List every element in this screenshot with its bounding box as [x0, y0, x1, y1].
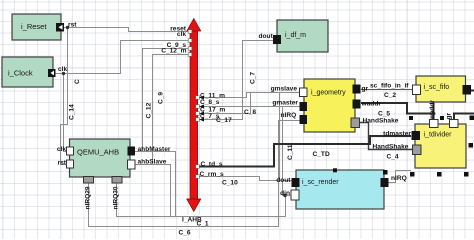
svg-text:dout: dout — [259, 33, 274, 40]
port i_sc_render dout — [292, 178, 300, 187]
wire HandShake: geometry to tdivider — [360, 123, 413, 150]
wire ahbSlave — [135, 165, 171, 217]
port QEMU_AHB ahbSlave — [128, 160, 136, 169]
handle i_tdivider right-mid — [469, 143, 474, 148]
svg-text:i_tdivider: i_tdivider — [424, 132, 453, 139]
svg-text:nIRQ29: nIRQ29 — [85, 186, 92, 209]
svg-text:gmaster: gmaster — [272, 100, 298, 107]
svg-text:C_9: C_9 — [158, 92, 165, 104]
wire gmslave down to render dout — [280, 93, 293, 181]
svg-text:C_1: C_1 — [197, 221, 209, 228]
module i_sc_fifo — [416, 76, 466, 102]
handle i_tdivider top-right — [470, 116, 474, 121]
port i_geometry gmslave — [300, 88, 308, 97]
bus port reset (white squares on arrow left edge) — [188, 30, 199, 179]
port QEMU_AHB clk in — [67, 147, 74, 155]
svg-text:i_Clock: i_Clock — [8, 69, 33, 78]
port QEMU_AHB nIRQ29 — [84, 177, 94, 184]
svg-text:C_TD: C_TD — [313, 151, 330, 158]
svg-text:tdmaster: tdmaster — [383, 131, 411, 138]
module i_sc_render — [296, 170, 384, 209]
bus port arrow markers — [200, 95, 205, 121]
wire gr loop from fifo right port off right edge — [470, 90, 474, 92]
svg-text:C_12_m: C_12_m — [161, 47, 186, 54]
wire sc_fifo_in_if: geometry gr to i_sc_fifo — [361, 89, 412, 91]
svg-text:waddr: waddr — [429, 100, 436, 121]
svg-text:sc_fifo_in_if: sc_fifo_in_if — [370, 83, 409, 90]
handle i_tdivider top-mid — [440, 116, 444, 120]
svg-text:clk: clk — [58, 66, 67, 73]
node din junction — [283, 194, 286, 197]
wire waddr stub up to fifo bottom — [433, 102, 435, 114]
wire gr loop re-entering to tdivider top port 2 — [454, 114, 474, 121]
module i_Reset — [12, 14, 61, 40]
svg-text:C_17: C_17 — [216, 117, 232, 124]
wire C_11: bus to gmslave — [197, 93, 300, 98]
wire C_9: bus C_9_s down to ahbMaster wire — [143, 49, 191, 152]
port QEMU_AHB nIRQ30 — [112, 177, 122, 184]
handle i_tdivider bottom-right — [464, 172, 469, 177]
svg-text:C_7: C_7 — [250, 72, 257, 84]
wire render nIRQ up — [388, 171, 411, 183]
port i_tdivider tdmaster — [412, 131, 421, 140]
svg-text:C_6: C_6 — [179, 230, 191, 237]
port i_Reset rst out — [56, 23, 64, 32]
port i_Clock clk out — [48, 69, 56, 77]
module QEMU_AHB — [70, 139, 131, 177]
port i_geometry gmaster — [300, 102, 308, 111]
svg-text:C_rm_s: C_rm_s — [200, 171, 225, 178]
wire ahbMaster — [135, 152, 176, 217]
port QEMU_AHB ahbMaster — [128, 147, 136, 156]
svg-text:waddr: waddr — [361, 101, 382, 108]
node rst junction — [66, 26, 69, 29]
wire clk down to QEMU_AHB clk — [64, 74, 67, 152]
port i_sc_render nIRQ — [381, 178, 389, 187]
wire C_7: i_df_m dout to bus C_7_s — [197, 41, 273, 120]
svg-text:rst: rst — [58, 160, 67, 167]
wire C_TD: bus C_td_s to tdivider tdmaster — [198, 136, 411, 167]
port QEMU_AHB rst in — [67, 160, 74, 168]
svg-text:i_sc_fifo: i_sc_fifo — [424, 84, 450, 91]
port i_tdivider HandShake — [413, 145, 422, 155]
svg-text:nIRQ: nIRQ — [391, 175, 407, 182]
module i_df_m — [277, 20, 328, 52]
svg-text:QEMU_AHB: QEMU_AHB — [77, 148, 119, 157]
handle i_sc_render top-right — [383, 170, 388, 175]
svg-text:ahbMaster: ahbMaster — [138, 146, 171, 153]
wire C_17: bus east then up — [197, 93, 251, 114]
node clk junction — [62, 72, 65, 75]
handle i_tdivider top-left — [409, 116, 413, 120]
svg-text:C_5: C_5 — [378, 111, 390, 118]
wire C_8: bus to gmaster — [197, 106, 300, 108]
handle i_tdivider bottom-left — [410, 172, 415, 177]
port i_geometry nIRQ — [300, 115, 308, 124]
port i_sc_render din — [291, 190, 299, 200]
port i_geometry waddr — [353, 100, 361, 109]
svg-text:dout: dout — [276, 177, 291, 184]
wire C_10: bus C_rm_s to render dout — [198, 177, 280, 181]
node waddr junction — [432, 112, 436, 116]
svg-text:i_Reset: i_Reset — [21, 22, 47, 31]
wire waddr: geometry waddr to tdivider top port — [361, 103, 434, 120]
port i_tdivider top2 — [450, 120, 459, 128]
bus arrow I_AHB — [187, 19, 201, 212]
svg-text:C_12: C_12 — [146, 102, 153, 118]
module i_geometry — [304, 79, 355, 132]
svg-text:gr: gr — [446, 112, 453, 119]
svg-text:HandShake: HandShake — [373, 144, 409, 151]
wire gmaster down to render din — [283, 107, 293, 196]
wire nIRQ30: QEMU_AHB down and right — [117, 183, 286, 217]
wire clk: i_Clock to bus clk port — [55, 41, 190, 74]
svg-text:gr: gr — [362, 86, 369, 93]
svg-text:C_10: C_10 — [222, 180, 238, 187]
svg-text:gmslave: gmslave — [271, 86, 298, 93]
svg-text:din: din — [280, 190, 290, 197]
svg-text:i_geometry: i_geometry — [311, 90, 346, 97]
svg-text:C_2: C_2 — [384, 92, 396, 99]
svg-text:C_td_s: C_td_s — [201, 161, 223, 168]
svg-text:C_8: C_8 — [244, 109, 256, 116]
svg-text:clk: clk — [57, 146, 66, 153]
wire nIRQ29: QEMU_AHB to i_geometry nIRQ — [89, 121, 300, 227]
svg-text:i_sc_render: i_sc_render — [302, 179, 339, 186]
svg-text:nIRQ30: nIRQ30 — [113, 186, 120, 209]
svg-text:i_df_m: i_df_m — [285, 32, 306, 39]
svg-text:rst: rst — [68, 22, 77, 29]
port i_geometry gr — [353, 85, 361, 94]
svg-text:ahbSlave: ahbSlave — [138, 159, 167, 166]
port i_sc_fifo in — [413, 85, 421, 95]
module i_Clock — [2, 57, 53, 87]
svg-text:C_14: C_14 — [69, 104, 76, 120]
svg-text:C: C — [74, 79, 81, 84]
port i_df_m dout — [273, 35, 281, 44]
handle i_tdivider bottom-mid — [437, 172, 442, 177]
svg-text:C_11: C_11 — [287, 144, 294, 160]
port i_tdivider top1 — [430, 120, 439, 128]
svg-text:C_8_s: C_8_s — [200, 99, 220, 106]
svg-text:HandShake: HandShake — [363, 118, 399, 125]
wire rst down to QEMU_AHB rst — [61, 28, 68, 165]
module i_tdivider — [415, 124, 466, 168]
port i_geometry HandShake — [351, 118, 360, 128]
wire rst: i_Reset to bus reset port — [64, 28, 190, 32]
svg-text:nIRQ: nIRQ — [281, 112, 297, 119]
svg-text:C_4: C_4 — [387, 154, 399, 161]
wire C_12: bus C_12_m down — [153, 55, 191, 165]
port i_sc_fifo out — [463, 85, 472, 95]
svg-text:clk: clk — [177, 31, 186, 38]
handle i_sc_render top-mid — [333, 168, 337, 172]
